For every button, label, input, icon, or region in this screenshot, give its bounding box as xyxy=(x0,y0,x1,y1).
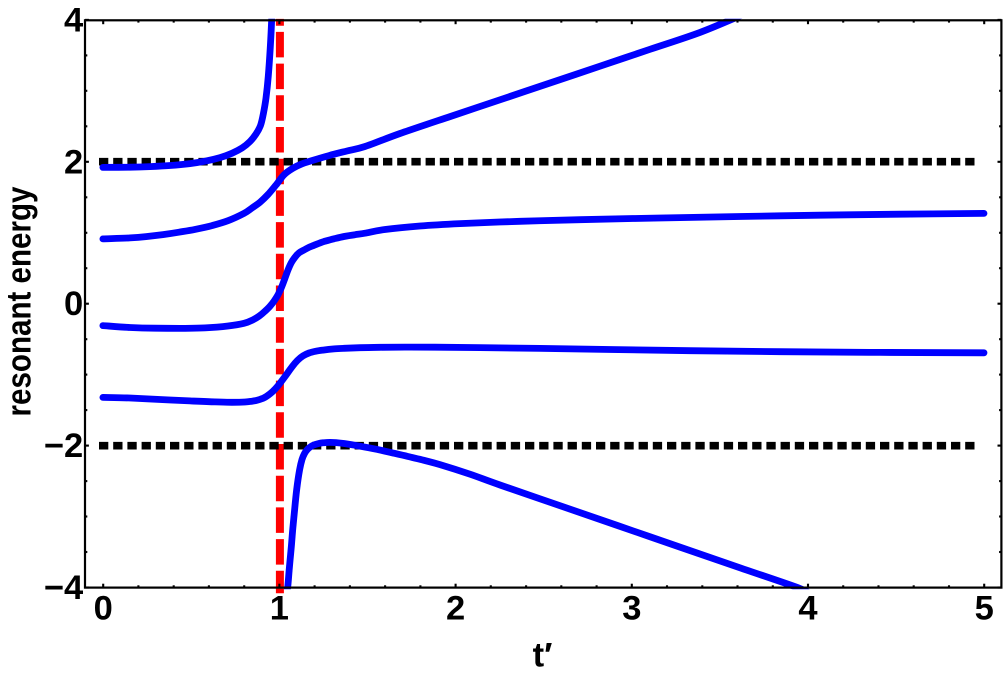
svg-text:0: 0 xyxy=(94,589,113,627)
svg-text:t′: t′ xyxy=(533,637,553,675)
svg-text:2: 2 xyxy=(446,589,465,627)
svg-text:3: 3 xyxy=(622,589,641,627)
svg-text:4: 4 xyxy=(798,589,817,627)
svg-text:resonant energy: resonant energy xyxy=(1,187,39,417)
svg-text:−2: −2 xyxy=(44,427,83,465)
svg-text:1: 1 xyxy=(270,589,289,627)
svg-text:0: 0 xyxy=(64,285,83,323)
svg-text:2: 2 xyxy=(64,143,83,181)
svg-text:4: 4 xyxy=(64,1,83,39)
svg-text:−4: −4 xyxy=(44,569,83,607)
svg-text:5: 5 xyxy=(975,589,994,627)
